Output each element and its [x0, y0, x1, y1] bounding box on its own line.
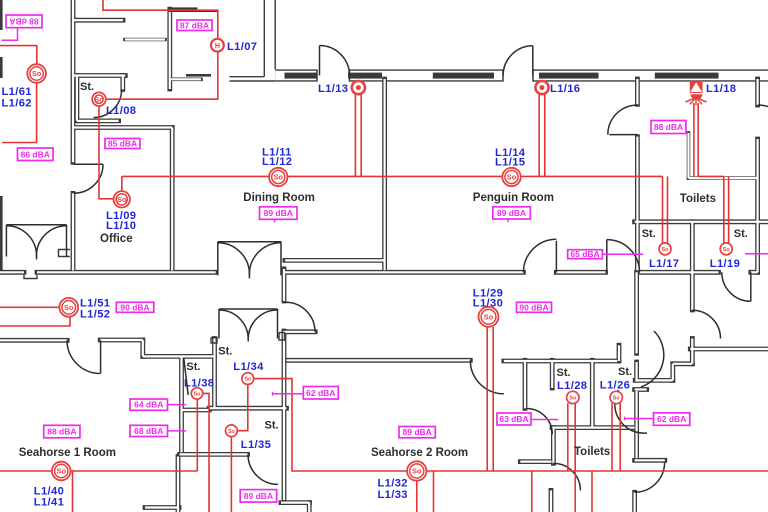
svg-text:L1/18: L1/18: [706, 83, 736, 95]
wall toilets right x757.6 lower: [755, 139, 760, 272]
door arc toilets vestibule lower: [615, 390, 647, 433]
wall st-box bottom: [77, 119, 119, 124]
wall office-dining x172: [170, 128, 175, 271]
wall sh2 nook y331.8: [284, 329, 315, 334]
wall H3 y454.4: [180, 452, 248, 457]
svg-text:St.: St.: [265, 420, 279, 432]
wall toilets-closets y221.8: [635, 219, 768, 224]
svg-text:L1/41: L1/41: [34, 496, 64, 508]
wall st-box left: [75, 76, 80, 121]
dBA badge 90 mid: [517, 302, 552, 312]
wire L1/28 b: [574, 403, 576, 512]
svg-text:L1/13: L1/13: [318, 83, 348, 95]
svg-text:L1/28: L1/28: [557, 380, 587, 392]
window bars on exterior wall: [285, 73, 318, 79]
wire L1/38 second: [203, 393, 209, 512]
cupboard bar 87room: [186, 74, 211, 77]
door penguin entrance leaf: [532, 46, 534, 76]
sounder L1/35: [226, 425, 238, 437]
door toilets left: [608, 105, 638, 135]
door penguin entrance: [503, 46, 533, 76]
wall 87room bottom lip: [171, 78, 201, 82]
wall toilets partition horiz: [689, 176, 758, 180]
svg-text:90 dBA: 90 dBA: [120, 302, 149, 312]
door office leaf: [74, 163, 103, 165]
double door west lobby left arc: [6, 226, 36, 257]
svg-text:St.: St.: [186, 361, 200, 373]
wall corridor north y272.3 mid: [285, 270, 523, 275]
double door west lobby right leaf: [66, 225, 68, 257]
double door west lobby right arc: [36, 226, 66, 257]
wall recess jamb x275.2: [274, 0, 276, 69]
double door corridor upper left arc: [218, 243, 250, 276]
door dining entrance: [320, 46, 350, 76]
svg-text:L1/34: L1/34: [233, 361, 264, 373]
svg-text:So: So: [507, 173, 517, 182]
detector L1/16: [535, 81, 548, 94]
wall toilets2 left x553.4: [551, 428, 556, 464]
svg-text:64 dBA: 64 dBA: [134, 400, 163, 410]
wire drop x72.5: [72, 471, 74, 512]
sounder L1/29-30: [479, 307, 499, 327]
wall fragment left edge top: [0, 0, 3, 30]
svg-text:St.: St.: [642, 228, 656, 240]
door corridor east leaf: [606, 240, 608, 273]
wall vestibule right x284 upper: [282, 269, 287, 301]
dBA badge 88 top-left: [2, 15, 43, 40]
wall toilets2 left x525: [523, 360, 528, 408]
dBA badge 89 south: [240, 490, 277, 503]
svg-text:L1/17: L1/17: [649, 258, 679, 270]
wire sh2 bus east: [427, 470, 768, 472]
wall sh2 corner H y502.6: [281, 500, 310, 505]
wire L1/19 b: [728, 176, 730, 243]
svg-text:65 dBA: 65 dBA: [570, 249, 599, 259]
wall left corridor x73 lower: [71, 193, 76, 270]
sounder L1/17: [659, 243, 671, 255]
wall right wing y349: [690, 347, 768, 352]
wire L1/17 a: [662, 176, 664, 243]
svg-text:So: So: [64, 303, 74, 312]
wall fragment left edge mid: [0, 57, 3, 78]
wire L1/13 a: [354, 93, 356, 176]
dBA badge 85: [105, 139, 140, 149]
dBA badge 87: [177, 20, 212, 31]
sounder L1/28: [567, 391, 579, 403]
dBA badge 89 seahorse2: [399, 427, 435, 438]
dBA badge 89 dining: [260, 207, 298, 223]
wire L1/07 feed: [103, 0, 218, 39]
svg-text:L1/26: L1/26: [600, 380, 630, 392]
door corridor east: [607, 240, 640, 273]
svg-text:Seahorse 2 Room: Seahorse 2 Room: [371, 447, 468, 459]
wall closet26 jamb x619: [617, 345, 622, 361]
double door corridor upper right leaf: [280, 242, 282, 276]
svg-text:Dining Room: Dining Room: [243, 192, 315, 204]
wall step y363.8: [673, 361, 693, 366]
dBA badge 89 penguin: [493, 207, 531, 222]
svg-text:68 dBA: 68 dBA: [134, 426, 163, 436]
wall left lobby x1.3: [0, 196, 3, 271]
door seahorse2 corridor: [470, 360, 504, 394]
wall toilets2 right x634.6 mid: [634, 391, 639, 458]
wire L1/61 down: [2, 83, 37, 143]
wire L1/26 a: [611, 403, 613, 471]
wall closets bottom y427.6: [552, 425, 635, 430]
wall office top: [73, 125, 172, 130]
wall corridor north y272.3 right: [640, 270, 719, 275]
wall bottom H4 y507: [145, 505, 179, 510]
wire drop x416.75: [416, 481, 418, 512]
wall recess face y76.7: [230, 76, 265, 78]
svg-text:L1/38: L1/38: [184, 377, 214, 389]
svg-text:L1/16: L1/16: [550, 83, 580, 95]
double door west lobby lintel: [6, 224, 66, 226]
svg-text:So: So: [194, 391, 202, 397]
wall step V1 x142.8: [140, 340, 145, 356]
wall toilets2 jog y460.3a: [520, 459, 551, 464]
wire L1/18 b: [697, 103, 699, 176]
door penguin corridor leafline leaf: [555, 241, 557, 272]
sounder L1/38: [191, 388, 202, 399]
svg-text:88 dBA: 88 dBA: [47, 427, 76, 437]
svg-text:88 dBA: 88 dBA: [654, 122, 683, 132]
wall dining-penguin x384: [382, 79, 387, 270]
double door corridor lower left arc: [219, 310, 248, 339]
wall toilets2 bottom jog y460.3: [635, 458, 665, 463]
call point L1/07: [211, 39, 224, 52]
wall right passage x692 lower: [690, 339, 695, 364]
svg-text:L1/62: L1/62: [2, 98, 32, 110]
wall notch below corridor wall: [24, 275, 37, 279]
wall corridor north y272.3 mid2: [556, 270, 605, 275]
wall top-left room top: [73, 18, 123, 23]
wire drop x531.8: [531, 471, 533, 512]
svg-text:L1/30: L1/30: [473, 297, 503, 309]
wire L1/13 b: [360, 93, 362, 176]
double door corridor upper lintel: [218, 241, 281, 243]
wire seahorse1 bus b: [71, 470, 198, 472]
wire L1/26 b: [619, 403, 621, 471]
svg-text:So: So: [274, 173, 284, 182]
wire L1/38 drop: [196, 399, 198, 471]
door toilets2 sw: [553, 463, 580, 490]
door st room: [248, 454, 278, 484]
wire L1/51 lower: [0, 317, 70, 326]
wall step y380.4: [635, 378, 673, 383]
dBA badge 86: [18, 148, 54, 161]
wire seahorse1 bus: [0, 470, 52, 472]
wall niche left of W1: [59, 250, 70, 257]
wall step x672.8: [670, 364, 675, 381]
wall penguin-toilets x636 upper: [635, 79, 640, 104]
svg-text:L1/52: L1/52: [80, 308, 110, 320]
wall penguin-toilets x636 lower: [635, 137, 640, 271]
wall corridor north y272.3 left: [0, 270, 24, 275]
sounder L1/14-15: [502, 168, 520, 186]
wire L1/07 to L1/08: [106, 51, 218, 99]
beacon L1/18: [686, 81, 707, 106]
wire drop x433.5: [433, 471, 435, 512]
wall vestibule bottom y408.2: [209, 406, 286, 411]
wire L1/29 a: [486, 327, 488, 471]
svg-text:89 dBA: 89 dBA: [403, 427, 432, 437]
svg-text:89 dBA: 89 dBA: [264, 208, 293, 218]
wall seahorse2 top y360.3: [287, 358, 471, 363]
door vestibule east: [286, 302, 316, 332]
svg-text:St.: St.: [557, 367, 571, 379]
double door corridor lower left leaf: [218, 309, 220, 339]
wall seahorse1 right x178 lower: [176, 457, 181, 512]
svg-text:Penguin Room: Penguin Room: [473, 192, 554, 204]
wire L1/17 b: [667, 176, 669, 243]
svg-text:L1/10: L1/10: [106, 220, 136, 232]
wire L1/35 drop: [230, 437, 232, 512]
svg-text:So: So: [228, 429, 236, 435]
wall toilets vest x636.6 mid2: [634, 362, 639, 380]
svg-text:So: So: [723, 247, 731, 253]
wall corridor north y272.3 left2: [37, 270, 216, 275]
wall toilets right x757.6 upper: [755, 79, 760, 105]
svg-text:Office: Office: [100, 233, 133, 245]
svg-text:St.: St.: [618, 366, 632, 378]
dBA badge 63: [497, 413, 558, 425]
wire L1/61 feed: [0, 46, 37, 65]
svg-text:L1/19: L1/19: [710, 258, 740, 270]
wall corridor south y340 mid: [100, 338, 143, 343]
svg-text:86 dBA: 86 dBA: [21, 149, 50, 159]
wire L1/34 to L1/35: [237, 385, 247, 431]
jamb notch left: [211, 338, 217, 344]
svg-text:St.: St.: [218, 345, 232, 357]
dBA badge 88 seahorse1: [44, 425, 80, 438]
wall closet38 bottom y410: [182, 408, 210, 413]
sounder L1/34: [242, 373, 254, 385]
door toilets2 se: [635, 462, 665, 492]
svg-text:88 dBA: 88 dBA: [9, 16, 38, 26]
door toilets left leaf: [609, 134, 637, 136]
wall stair landing: [125, 38, 165, 42]
wall st-box right upper: [120, 76, 125, 90]
sounder L1/09-10: [114, 191, 130, 207]
double door corridor upper left leaf: [217, 242, 219, 276]
sounder L1/32-33: [407, 461, 426, 480]
wall 87room top face: [169, 10, 218, 12]
leader to off-canvas label: [745, 253, 768, 255]
door corridor right-end: [722, 272, 751, 301]
sounder L1/26: [610, 391, 622, 403]
dBA badge 62 seahorse2: [273, 387, 339, 400]
wire L1/51 feed: [0, 306, 59, 308]
svg-text:L1/33: L1/33: [378, 489, 408, 501]
svg-text:L1/12: L1/12: [262, 156, 292, 168]
wall sh2 corner V x309.2: [307, 503, 312, 512]
exterior north wall band: [275, 69, 317, 81]
door penguin corridor leafline: [556, 240, 558, 242]
double door west lobby cusp: [36, 257, 38, 260]
svg-text:So: So: [484, 312, 494, 321]
wall vestibule left x214.5: [212, 339, 217, 409]
door toilets right: [758, 105, 768, 139]
double door corridor upper right arc: [249, 243, 281, 276]
door right passage upper: [692, 310, 720, 338]
double door corridor lower lintel: [219, 308, 278, 310]
door toilets2 nw: [527, 408, 553, 434]
wall recess jamb x264.3: [263, 0, 265, 77]
door office: [74, 164, 103, 193]
svg-text:89 dBA: 89 dBA: [497, 208, 526, 218]
wall toilets vest x636.6 upper: [634, 272, 639, 353]
svg-text:Toilets: Toilets: [680, 193, 716, 205]
svg-text:St.: St.: [80, 81, 94, 93]
jamb notch right: [279, 333, 285, 341]
svg-text:Seahorse 1 Room: Seahorse 1 Room: [19, 447, 116, 459]
wire main bus y176.4: [122, 175, 663, 177]
svg-text:87 dBA: 87 dBA: [180, 20, 209, 30]
svg-text:So: So: [662, 247, 670, 253]
svg-text:L1/32: L1/32: [378, 477, 408, 489]
svg-text:So: So: [569, 396, 577, 402]
dBA badge 64: [130, 399, 186, 410]
wall recess inner y81: [230, 80, 276, 82]
detector L1/13: [352, 81, 365, 94]
door leaf closet38: [184, 359, 188, 396]
svg-text:So: So: [412, 467, 422, 476]
door corridor south-west: [67, 340, 100, 373]
svg-text:90 dBA: 90 dBA: [519, 302, 548, 312]
wall step H2 y356.4: [143, 354, 215, 359]
svg-text:89 dBA: 89 dBA: [244, 491, 273, 501]
wire L1/16 b: [544, 93, 546, 176]
door arc toilets vestibule upper: [641, 331, 664, 387]
wall seahorse2 top y360.3 right: [504, 359, 618, 364]
wall 87room left x169.8: [167, 9, 172, 89]
svg-text:So: So: [613, 396, 621, 402]
wire bus to L1/19: [698, 175, 724, 177]
svg-text:L1/07: L1/07: [227, 41, 257, 53]
sounder L1/11-12: [269, 168, 287, 186]
band end caps at door openings: [316, 69, 318, 81]
wire L1/19 a: [723, 176, 725, 243]
wire L1/34 to sh2 bus: [254, 379, 407, 471]
svg-text:62 dBA: 62 dBA: [657, 414, 686, 424]
svg-text:So: So: [57, 467, 67, 476]
wall left corridor x73: [71, 0, 76, 162]
wall closet28 left x552.2: [550, 360, 555, 388]
svg-text:H: H: [215, 43, 220, 50]
wall seahorse-wing bottom y260.4: [285, 258, 385, 263]
window bar 87room: [169, 7, 198, 11]
svg-text:So: So: [32, 69, 42, 78]
wall corridor south y342 left: [0, 338, 67, 343]
wall closet divider x592.3: [590, 360, 595, 427]
svg-text:So: So: [94, 95, 104, 104]
double door corridor upper cusp: [248, 275, 250, 278]
wire drop x592: [591, 471, 593, 512]
door corridor right-end leaf: [750, 272, 752, 301]
wire L1/16 a: [538, 93, 540, 176]
wire L1/18 a: [693, 103, 695, 176]
wall st-room top: [73, 73, 125, 78]
svg-text:So: So: [244, 377, 252, 383]
sounder L1/61-62: [27, 64, 46, 83]
svg-text:L1/15: L1/15: [495, 156, 525, 168]
wall toilets2 left x551 low: [549, 490, 554, 512]
double door corridor lower right arc: [248, 310, 277, 339]
svg-text:62 dBA: 62 dBA: [306, 388, 335, 398]
double door corridor lower right leaf: [277, 309, 279, 339]
double door corridor lower cusp: [247, 339, 249, 342]
dBA badge 90 west: [116, 302, 154, 312]
wire L1/08 down to L1/09: [99, 106, 114, 199]
door dining entrance leaf: [319, 46, 321, 76]
sounder L1/08: [92, 92, 106, 106]
dBA badge 65: [568, 249, 644, 259]
svg-text:L1/08: L1/08: [106, 105, 136, 117]
svg-text:63 dBA: 63 dBA: [499, 414, 528, 424]
sounder L1/40-41: [52, 462, 71, 481]
wall vestibule right x284 lower: [282, 331, 287, 500]
dBA badge 68: [130, 425, 186, 436]
svg-text:L1/35: L1/35: [241, 439, 271, 451]
dBA badge 62 toilets: [625, 413, 690, 426]
dBA badge 88 toilets: [651, 121, 686, 134]
door penguin corridor: [523, 239, 556, 272]
svg-text:So: So: [117, 195, 127, 204]
svg-text:L1/61: L1/61: [2, 86, 32, 98]
sounder L1/19: [720, 243, 732, 255]
svg-text:Toilets: Toilets: [574, 446, 610, 458]
svg-text:85 dBA: 85 dBA: [108, 139, 137, 149]
wire L1/29 b: [492, 327, 494, 471]
wall corridor notch right: [751, 270, 758, 275]
wire L1/28 a: [567, 403, 569, 471]
wall closet divider x692.9: [690, 222, 695, 272]
double door west lobby left leaf: [5, 225, 7, 257]
sounder L1/51-52: [59, 298, 78, 317]
door corridor south-west leaf: [100, 340, 102, 373]
wall seahorse1 right x181.5: [179, 356, 184, 452]
door st-box closet: [94, 90, 122, 118]
wall toilets partition vert: [687, 133, 691, 178]
wall y389 stub: [635, 387, 647, 392]
wire L1/09 up to bus: [121, 176, 123, 191]
svg-text:St.: St.: [734, 228, 748, 240]
wall toilets2 right x634.6 low: [632, 492, 637, 512]
wall right passage x692 upper: [690, 272, 695, 310]
